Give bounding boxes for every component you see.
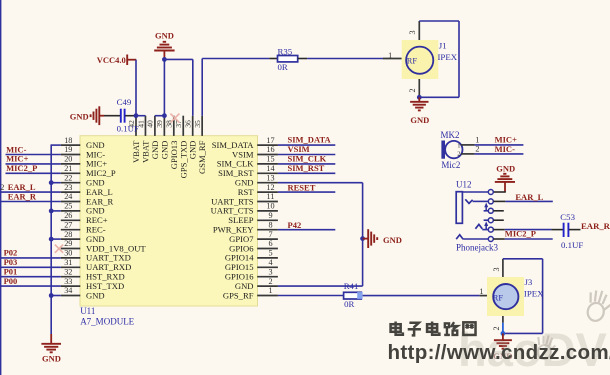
wire: top GND down to pin39 <box>163 58 165 116</box>
ground symbol left (C49) stem <box>99 115 104 117</box>
U11 pin 33 (HST_TXD) stub <box>61 285 81 287</box>
capacitor C53 plates <box>563 223 565 237</box>
microphone MK2 bar <box>441 141 445 159</box>
U11 pin 23 (EAR_L) stub <box>61 191 81 193</box>
svg-text:J3: J3 <box>525 277 533 287</box>
junction J1 pin2/GND <box>417 95 422 100</box>
wire: pin2 GND right <box>278 285 363 287</box>
watermark ghost hand top <box>585 288 610 323</box>
wire: pin22 to rail <box>51 182 61 184</box>
ground symbol J1 stem <box>418 97 420 102</box>
J1 pin 3 stub <box>418 21 420 40</box>
ground symbol mid bars <box>367 229 369 248</box>
U11 pin 31 (UART_RXD) stub <box>61 266 81 268</box>
capacitor C53 left lead <box>551 229 563 231</box>
wire: U12 chevron to T5 <box>482 229 488 231</box>
watermark ghost hand lower <box>535 334 556 360</box>
svg-text:13: 13 <box>266 173 274 182</box>
wire: pin42 to pin41 (VBAT) <box>136 115 146 117</box>
wire: VCC4.0 stub <box>127 59 136 61</box>
U11 pin 1 (GPS_RF) stub <box>257 295 278 297</box>
svg-text:http://www.cndzz.com/: http://www.cndzz.com/ <box>388 341 610 364</box>
U11 pin 5 (GPIO14) stub <box>257 257 278 259</box>
wire: net P02 to pin 30 <box>1 257 61 259</box>
U11 pin 6 (GPIO6) stub <box>257 248 278 250</box>
resistor R35 body <box>278 56 298 62</box>
U11 pin 3 (GPIO16) stub <box>257 276 278 278</box>
ground symbol U12 bars <box>503 173 506 175</box>
wire: GND to C49 <box>104 115 120 117</box>
svg-text:MIC+: MIC+ <box>495 135 517 145</box>
svg-text:R41: R41 <box>344 281 359 291</box>
U11 pin 9 (SLEEP) stub <box>257 219 278 221</box>
U12 ring contact chevron (MIC2_P) <box>475 224 482 229</box>
svg-text:33: 33 <box>64 277 72 286</box>
svg-text:8: 8 <box>268 220 272 229</box>
U12 tip contact chevron (EAR_L) <box>465 199 472 203</box>
svg-text:14: 14 <box>266 164 274 173</box>
wire: pin25 to rail <box>51 210 61 212</box>
microphone MK2 circle <box>445 141 462 158</box>
U11 pin 41 (VBAT) stub <box>144 116 146 136</box>
MK2 pin 1 stub <box>461 144 475 146</box>
svg-text:40: 40 <box>146 120 155 128</box>
svg-text:Phonejack3: Phonejack3 <box>456 243 498 253</box>
svg-text:12: 12 <box>266 183 274 192</box>
svg-text:GPS_RF: GPS_RF <box>223 290 254 300</box>
wire: down to pin36 <box>192 59 194 115</box>
U11 pin 7 (GPIO7) stub <box>257 238 278 240</box>
U11 pin 37 (GPS_TXD) stub <box>182 116 184 136</box>
U12 terminal 6 circle <box>488 237 493 242</box>
svg-text:0.1UF: 0.1UF <box>117 123 139 133</box>
svg-text:GND: GND <box>496 164 515 174</box>
U11 pin 39 (GND) stub <box>163 116 165 136</box>
svg-text:6: 6 <box>268 239 272 248</box>
svg-text:GND: GND <box>410 115 429 125</box>
U12 terminal 3 circle <box>488 208 493 213</box>
U11 pin 4 (GPIO15) stub <box>257 266 278 268</box>
svg-text:VCC4.0: VCC4.0 <box>97 55 126 65</box>
U12 T3 stub <box>493 210 503 212</box>
wire: J3 pin2 highlighted <box>502 323 504 334</box>
svg-text:SIM_RST: SIM_RST <box>288 163 325 173</box>
J1 pin 1 stub <box>383 58 402 60</box>
wire: U12 T1 to GND <box>493 191 505 193</box>
svg-text:IPEX: IPEX <box>438 52 458 62</box>
wire: net MIC- to pin 19 <box>6 154 61 156</box>
wire: net P00 to pin 33 <box>1 285 61 287</box>
connector J1 body <box>402 40 439 79</box>
svg-text:3: 3 <box>268 267 272 276</box>
U11 pin 26 (REC+) stub <box>61 219 81 221</box>
U12 T5 stub <box>493 229 504 231</box>
wire: net MIC+ to pin 20 <box>6 163 61 165</box>
wire: pin40 to pin39 (GND) <box>155 115 165 117</box>
U11 pin 2 (GND) stub <box>257 285 278 287</box>
ground symbol J1 bars <box>410 101 428 103</box>
svg-text:GND: GND <box>155 31 174 41</box>
svg-text:16: 16 <box>266 145 274 154</box>
U11 pin 13 (GND) stub <box>257 182 278 184</box>
U12 T6 stub <box>493 238 504 240</box>
wire: VCC4.0 down to pin42 <box>135 60 137 116</box>
svg-text:10: 10 <box>266 202 274 211</box>
wire: GSM_RF to R35 <box>202 58 269 60</box>
svg-text:34: 34 <box>64 286 72 295</box>
svg-text:15: 15 <box>266 155 274 164</box>
wire: net P42 <box>278 229 335 231</box>
junction at pin22 rail <box>49 180 54 185</box>
svg-text:MIC2_P: MIC2_P <box>6 163 37 173</box>
wire: net P03 to pin 31 <box>1 266 61 268</box>
connector J1 RF circle <box>406 47 433 74</box>
svg-text:0R: 0R <box>278 62 288 72</box>
ground symbol bottom-left bars <box>41 343 61 345</box>
svg-text:4: 4 <box>268 258 272 267</box>
connector J3 body <box>487 277 524 316</box>
sheet left border <box>0 0 2 375</box>
capacitor C53 right lead <box>569 229 581 231</box>
U11 pin 12 (RST) stub <box>257 191 278 193</box>
no-connect X on pin 38 <box>170 114 179 123</box>
U11 pin 8 (PWR_KEY) stub <box>257 229 278 231</box>
wire: pin1 GPS_RF to R41 <box>278 295 344 297</box>
svg-text:EAR_R: EAR_R <box>8 191 37 201</box>
svg-text:2: 2 <box>408 88 417 92</box>
wire: pin13 GND right <box>278 182 363 184</box>
svg-text:39: 39 <box>155 120 164 128</box>
svg-text:GND: GND <box>383 235 402 245</box>
U12 terminal 1 circle <box>488 190 493 195</box>
svg-text:C53: C53 <box>560 212 575 222</box>
svg-text:1: 1 <box>268 286 272 295</box>
ground symbol J3 stem <box>502 333 504 340</box>
svg-text:17: 17 <box>266 136 274 145</box>
U11 pin 30 (UART_TXD) stub <box>61 257 81 259</box>
svg-text:22: 22 <box>64 173 72 182</box>
no-connect X on pin 29 <box>55 245 63 253</box>
wire: net EAR_L <box>505 200 552 202</box>
svg-text:29: 29 <box>64 239 72 248</box>
svg-text:36: 36 <box>184 120 193 128</box>
wire: net SIM_RST <box>278 172 335 174</box>
svg-text:Mic2: Mic2 <box>441 160 460 170</box>
wire: U12 T3 short <box>484 210 489 212</box>
svg-text:U11: U11 <box>80 306 95 316</box>
wire: pin35 GSM_RF up <box>201 59 203 116</box>
capacitor C49 plates <box>120 109 122 123</box>
svg-text:EAR_L: EAR_L <box>515 192 543 202</box>
wire: left GND rail vertical <box>50 145 52 334</box>
svg-text:2: 2 <box>0 183 4 192</box>
svg-text:RF: RF <box>493 294 504 303</box>
svg-text:3: 3 <box>408 30 417 34</box>
U12 sleeve contact chevron <box>456 235 463 240</box>
junction at pin 42 <box>134 113 139 118</box>
svg-text:3: 3 <box>492 267 501 271</box>
wire: R41 to J3 <box>363 295 480 297</box>
wire: U12 T4 short <box>484 219 489 221</box>
svg-text:R35: R35 <box>278 47 293 57</box>
U11 pin 14 (SIM_RST) stub <box>257 172 278 174</box>
wire: net VSIM <box>278 154 335 156</box>
svg-text:2: 2 <box>457 150 460 157</box>
svg-text:24: 24 <box>64 192 72 201</box>
svg-text:31: 31 <box>64 258 72 267</box>
wire: J1 pin3 loop top <box>419 20 459 22</box>
svg-text:9: 9 <box>268 211 272 220</box>
MK2 pin 2 stub <box>461 153 475 155</box>
svg-text:C49: C49 <box>117 97 132 107</box>
svg-text:GND: GND <box>42 354 61 364</box>
ground symbol bottom-left stem <box>50 334 52 344</box>
svg-text:20: 20 <box>64 155 72 164</box>
U12 T2 stub <box>493 200 505 202</box>
U11 pin 27 (REC-) stub <box>61 229 81 231</box>
svg-text:J1: J1 <box>439 40 447 50</box>
U11 pin 21 (MIC2_P) stub <box>61 172 81 174</box>
U12 switch arrow T5->T4 <box>485 224 487 230</box>
svg-text:28: 28 <box>64 230 72 239</box>
U11 pin 17 (SIM_DATA) stub <box>257 144 278 146</box>
svg-text:U12: U12 <box>456 180 472 190</box>
J3 pin 2 stub <box>502 316 504 323</box>
svg-text:5: 5 <box>268 249 272 258</box>
wire: top GND branch to pin36 <box>164 58 192 60</box>
U12 terminal 4 circle <box>488 218 493 223</box>
U11 pin 24 (EAR_R) stub <box>61 201 81 203</box>
junction mid GND <box>360 236 365 241</box>
wire: J1 loop right <box>458 21 460 97</box>
svg-text:25: 25 <box>64 202 72 211</box>
wire: J1 loop bottom <box>419 96 459 98</box>
U11 pin 10 (UART_CTS) stub <box>257 210 278 212</box>
svg-text:1: 1 <box>457 143 460 150</box>
wire: net SIM_DATA <box>278 144 335 146</box>
svg-text:1: 1 <box>479 287 483 296</box>
svg-text:30: 30 <box>64 249 72 258</box>
wire: net RESET <box>278 191 335 193</box>
junction J3 pin2/GND <box>501 331 506 336</box>
U11 pin 32 (HST_RXD) stub <box>61 276 81 278</box>
wire: pin18 to rail <box>51 144 61 146</box>
svg-text:27: 27 <box>64 220 72 229</box>
wire: net SIM_CLK <box>278 163 335 165</box>
connector J3 RF circle <box>493 284 518 309</box>
wire: pin28 to rail <box>51 238 61 240</box>
ground symbol J3 bars <box>494 339 512 341</box>
wire: net EAR_R to pin 24 <box>0 201 61 203</box>
svg-text:18: 18 <box>64 136 72 145</box>
svg-text:2: 2 <box>475 145 479 154</box>
svg-text:1: 1 <box>475 135 479 144</box>
svg-text:RESET: RESET <box>288 183 316 193</box>
wire: net MIC2_P <box>505 238 553 240</box>
U12 terminal 2 circle <box>488 199 493 204</box>
U11 pin 28 (GND) stub <box>61 238 81 240</box>
svg-text:P42: P42 <box>288 220 302 230</box>
U12 terminal 5 circle <box>488 227 493 232</box>
U11 pin 40 (GND) stub <box>154 116 156 136</box>
U11 pin 34 (GND) stub <box>61 295 81 297</box>
ground symbol mid stem <box>363 238 369 240</box>
svg-text:MIC-: MIC- <box>495 144 515 154</box>
svg-text:2: 2 <box>268 277 272 286</box>
resistor R35 left lead <box>269 58 277 60</box>
svg-text:35: 35 <box>193 120 202 128</box>
U11 pin 20 (MIC+) stub <box>61 163 81 165</box>
junction at pin34 rail <box>49 293 54 298</box>
junction at pin25 rail <box>49 209 54 214</box>
svg-text:23: 23 <box>64 183 72 192</box>
IC U11 A7_MODULE body <box>80 136 258 306</box>
phonejack U12 sleeve rectangle <box>456 192 462 224</box>
resistor R35 right lead <box>298 58 308 60</box>
wire: U12 top to T1 <box>462 191 488 193</box>
J1 pin 2 stub <box>418 79 420 97</box>
U11 pin 25 (GND) stub <box>61 210 81 212</box>
U11 pin 19 (MIC-) stub <box>61 154 81 156</box>
wire: T5 to C53 <box>505 229 552 231</box>
svg-text:7: 7 <box>268 230 272 239</box>
wire: MK2 pin2 MIC- <box>475 153 524 155</box>
U12 T4 stub <box>493 219 503 221</box>
wire: GND vertical (pin13 to pin2) <box>362 183 364 286</box>
junction at pin28 rail <box>49 237 54 242</box>
wire: net EAR_L to pin 23 <box>0 191 61 193</box>
watermark chinese text 电子电路网 <box>391 322 403 335</box>
wire: U12 chevron to T6 <box>463 238 488 240</box>
svg-text:26: 26 <box>64 211 72 220</box>
U12 switch arrow T3->T2 <box>485 205 487 211</box>
ground symbol top bars <box>163 41 166 43</box>
wire: J3 pin3 loop top <box>503 258 543 260</box>
junction at pin39 <box>162 113 167 118</box>
svg-text:GSM_RF: GSM_RF <box>197 140 207 174</box>
U11 pin 18 (GND) stub <box>61 144 81 146</box>
ground symbol top stem <box>163 51 165 58</box>
J3 pin 3 stub <box>502 259 504 277</box>
U11 pin 16 (VSIM) stub <box>257 154 278 156</box>
U11 pin 38 (GPIO13) stub <box>173 116 175 136</box>
wire: net P01 to pin 32 <box>1 276 61 278</box>
wire: C49 to pin42 <box>125 115 136 117</box>
svg-text:19: 19 <box>64 145 72 154</box>
junction top GND branch <box>162 57 167 62</box>
svg-text:IPEX: IPEX <box>524 288 544 298</box>
ground symbol U12 stem <box>504 182 506 192</box>
svg-text:RF: RF <box>407 56 418 65</box>
svg-text:MIC2_P: MIC2_P <box>505 229 536 239</box>
power port VCC4.0 bar <box>126 55 128 66</box>
U11 pin 29 (VDD_1V8_OUT) stub <box>61 248 81 250</box>
U11 pin 42 (VBAT) stub <box>135 116 137 136</box>
svg-text:0R: 0R <box>344 299 354 309</box>
wire: J3 loop bottom <box>503 332 543 334</box>
resistor R41 body <box>344 292 362 299</box>
U11 pin 15 (SIM_CLK) stub <box>257 163 278 165</box>
svg-text:21: 21 <box>64 164 72 173</box>
wire: MK2 pin1 MIC+ <box>475 144 524 146</box>
wire: pin34 to rail <box>51 295 61 297</box>
svg-text:P00: P00 <box>4 276 18 286</box>
svg-text:GND: GND <box>86 290 105 300</box>
wire: U12 chevron to T2 <box>473 200 489 202</box>
ground symbol left (C49) bars <box>90 114 92 117</box>
svg-text:11: 11 <box>267 192 275 201</box>
svg-text:32: 32 <box>64 267 72 276</box>
svg-text:0.1UF: 0.1UF <box>561 240 583 250</box>
U11 pin 22 (GND) stub <box>61 182 81 184</box>
U11 pin 36 (GND) stub <box>192 116 194 136</box>
wire: R35 to J1 <box>307 58 383 60</box>
svg-text:GND: GND <box>70 112 89 122</box>
svg-text:A7_MODULE: A7_MODULE <box>80 317 134 327</box>
J3 pin 1 stub <box>480 295 487 297</box>
wire: J3 loop right <box>542 259 544 334</box>
svg-text:MK2: MK2 <box>441 130 460 140</box>
U11 pin 11 (UART_RTS) stub <box>257 201 278 203</box>
svg-text:EAR_R: EAR_R <box>581 221 610 231</box>
U11 pin 35 (GSM_RF) stub <box>201 116 203 136</box>
R41 highlight square <box>357 292 362 299</box>
wire: net MIC2_P to pin 21 <box>6 172 61 174</box>
